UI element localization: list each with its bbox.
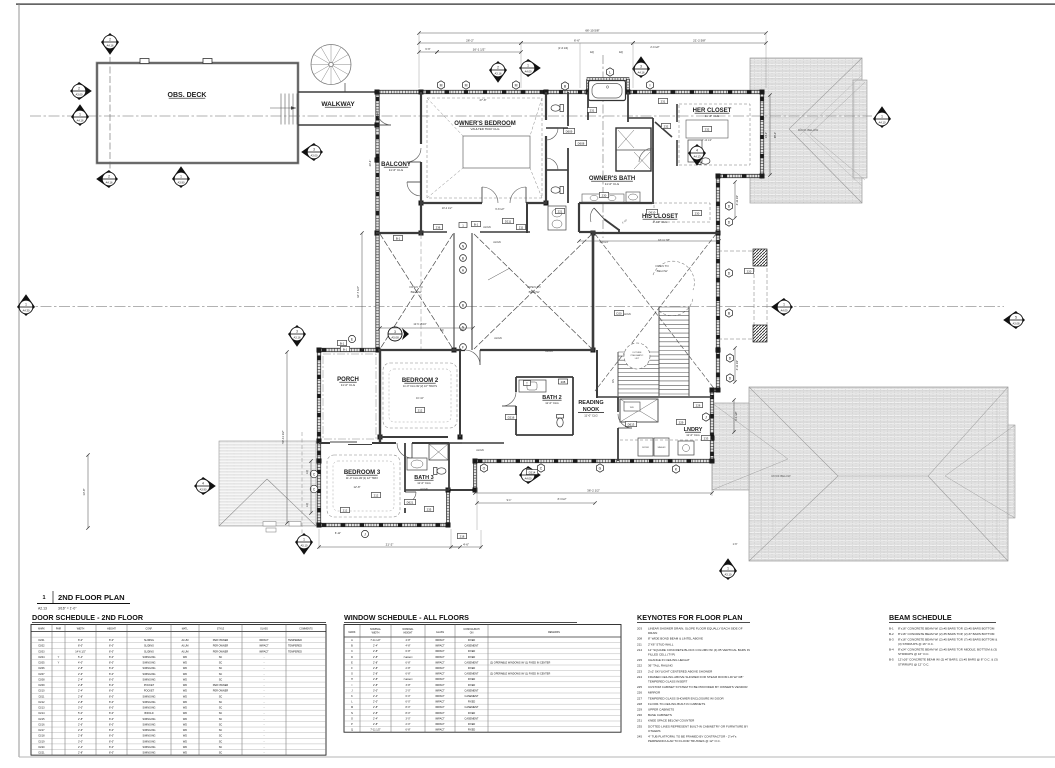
svg-text:235: 235	[427, 507, 432, 511]
door his closet	[594, 208, 604, 219]
svg-text:222: 222	[637, 664, 642, 668]
svg-text:M: M	[440, 83, 443, 87]
svg-text:WIDTH: WIDTH	[77, 628, 85, 630]
section marker right of deck 3/A3.00	[301, 143, 323, 161]
svg-text:(2) OPERABLE WINDOWS W/ (1) FI: (2) OPERABLE WINDOWS W/ (1) FIXED IN CEN…	[490, 661, 550, 664]
svg-text:5'-4": 5'-4"	[78, 656, 83, 659]
svg-text:3/16" = 1'-0": 3/16" = 1'-0"	[58, 607, 77, 611]
svg-text:KEYNOTES FOR FLOOR PLAN: KEYNOTES FOR FLOOR PLAN	[637, 613, 742, 622]
svg-text:11'-0" CLG: 11'-0" CLG	[705, 114, 720, 118]
laundry walls	[597, 350, 712, 461]
svg-text:8"x16" CONCRETE BEAM W/ (2) #5: 8"x16" CONCRETE BEAM W/ (2) #5 BARS TOP,…	[898, 638, 997, 642]
svg-text:2'-0": 2'-0"	[406, 689, 411, 692]
window tag hexagons top wall	[437, 81, 444, 89]
door laundry	[618, 427, 632, 429]
svg-text:2'-8": 2'-8"	[78, 667, 83, 670]
svg-text:SWINGING: SWINGING	[143, 718, 156, 721]
svg-text:A4.13: A4.13	[693, 154, 701, 158]
door schedule heading	[32, 613, 326, 623]
svg-text:IMPACT: IMPACT	[435, 729, 445, 732]
east wall of her-closet wing	[760, 91, 763, 177]
svg-text:11'-0" CLG: 11'-0" CLG	[417, 481, 430, 485]
svg-text:6'-11": 6'-11"	[335, 532, 341, 535]
svg-text:245: 245	[637, 735, 642, 739]
stairwell west wall	[592, 232, 595, 352]
svg-text:215: 215	[637, 658, 642, 662]
section marker left of deck 1/A4.16	[71, 104, 89, 126]
open to below 2 (x-brace)	[474, 234, 592, 349]
svg-text:BELOW: BELOW	[529, 290, 540, 294]
svg-text:B-1: B-1	[474, 222, 479, 226]
svg-text:3: 3	[394, 330, 396, 334]
svg-text:IMPACT: IMPACT	[435, 656, 445, 659]
svg-text:66'-10 5/8": 66'-10 5/8"	[585, 29, 599, 33]
svg-text:2: 2	[78, 86, 80, 90]
svg-text:1: 1	[783, 302, 785, 306]
svg-text:L: L	[609, 70, 611, 74]
window tag hexagons east wall	[725, 202, 732, 210]
svg-text:D215: D215	[39, 718, 46, 721]
svg-text:10'-2 1/2": 10'-2 1/2"	[442, 207, 453, 210]
svg-text:8"x24" CONCRETE BEAM W/ (2) #5: 8"x24" CONCRETE BEAM W/ (2) #5 BARS TOP,…	[898, 648, 997, 652]
svg-text:20'-4": 20'-4"	[368, 160, 372, 167]
svg-text:2'-4": 2'-4"	[78, 746, 83, 749]
svg-text:FIXED: FIXED	[468, 639, 476, 642]
section marker far right 5/A3.08	[1003, 311, 1025, 329]
svg-text:DOOR SCHEDULE - 2ND FLOOR: DOOR SCHEDULE - 2ND FLOOR	[32, 613, 144, 622]
dimension her closet right	[765, 93, 777, 176]
svg-text:2'-6": 2'-6"	[78, 723, 83, 726]
svg-text:2'-8": 2'-8"	[373, 650, 378, 653]
centerline horizontal middle (dash-dot)	[22, 306, 1004, 308]
roof below - lower left (porte-cochere hip roof)	[219, 432, 316, 542]
svg-text:IMPACT: IMPACT	[435, 673, 445, 676]
svg-text:WD: WD	[183, 740, 187, 743]
svg-text:8'-0": 8'-0"	[109, 662, 114, 665]
svg-text:8'-0": 8'-0"	[109, 639, 114, 642]
porch north wall	[318, 348, 380, 351]
section marker below bedroom3 1/A5.10	[295, 533, 313, 555]
porch ceiling dash-dot outline	[323, 354, 376, 439]
svg-text:233: 233	[704, 436, 709, 440]
svg-text:2'x2' SKYLIGHT CENTERED ABOVE: 2'x2' SKYLIGHT CENTERED ABOVE SHOWER	[648, 669, 713, 673]
svg-text:8'-0": 8'-0"	[109, 650, 114, 653]
dimension top row3	[417, 46, 659, 54]
svg-text:A3.08: A3.08	[1012, 321, 1020, 325]
stair lower run treads	[611, 352, 659, 396]
svg-text:A4.16: A4.16	[76, 118, 84, 122]
owner's bath south wall	[579, 176, 653, 232]
svg-text:MARK: MARK	[38, 627, 45, 630]
svg-text:M: M	[515, 83, 518, 87]
svg-text:218: 218	[460, 534, 465, 538]
svg-text:HEIGHT: HEIGHT	[403, 631, 413, 634]
svg-text:ALIGN: ALIGN	[476, 449, 484, 452]
section marker far left 1/A4.30	[17, 294, 35, 316]
dimension bridge vertical	[361, 233, 363, 350]
beam dashed line below balcony	[420, 234, 422, 349]
svg-text:FIXED: FIXED	[468, 723, 476, 726]
svg-text:D211: D211	[39, 695, 45, 698]
svg-text:12"x26" CONCRETE BEAM W/ (2) #: 12"x26" CONCRETE BEAM W/ (2) #7 BARS, (2…	[898, 658, 998, 662]
centerline vertical through owner's bath (dash-dot)	[602, 55, 604, 238]
svg-text:POCKET: POCKET	[144, 684, 155, 687]
svg-text:TEMPERED: TEMPERED	[288, 645, 302, 648]
svg-text:CONF.: CONF.	[146, 628, 153, 630]
svg-text:SWINGING: SWINGING	[143, 678, 156, 681]
svg-text:8'-0": 8'-0"	[109, 740, 114, 743]
svg-text:SC: SC	[219, 707, 223, 710]
svg-text:8'-0": 8'-0"	[109, 678, 114, 681]
svg-text:OTHERS: OTHERS	[648, 729, 661, 733]
svg-text:CASEMENT: CASEMENT	[465, 706, 479, 709]
svg-text:8'-0": 8'-0"	[109, 723, 114, 726]
house footprint fill	[319, 79, 762, 525]
open to below 1 (x-brace)	[380, 234, 453, 349]
svg-text:D201: D201	[39, 639, 46, 642]
svg-text:CASEMENT: CASEMENT	[465, 661, 479, 664]
svg-text:2'-8": 2'-8"	[373, 661, 378, 664]
porch south wall with sliding door	[319, 442, 381, 445]
svg-text:ALIGN: ALIGN	[623, 313, 631, 316]
door wc1	[546, 127, 558, 129]
svg-text:SC: SC	[219, 667, 223, 670]
owner's bedroom south wall with double door opening	[421, 203, 547, 233]
svg-text:A4.10: A4.10	[878, 120, 886, 124]
svg-text:SC: SC	[219, 729, 223, 732]
svg-text:4'-8": 4'-8"	[406, 645, 411, 648]
door balcony	[407, 161, 421, 163]
toilet wc1	[551, 105, 564, 112]
detail marker her closet 4/A4.13	[688, 144, 706, 166]
svg-text:B-1: B-1	[396, 236, 401, 240]
svg-text:CUSTOM CABINET SYSTEM TO BE PR: CUSTOM CABINET SYSTEM TO BE PROVIDED BY …	[648, 685, 748, 689]
svg-text:ALIGN: ALIGN	[494, 337, 502, 340]
svg-text:SWINGING: SWINGING	[143, 707, 156, 710]
svg-text:2: 2	[109, 37, 111, 41]
his closet cabinets (dashed)	[610, 203, 710, 236]
svg-text:STIRRUPS @ 16" O.C.: STIRRUPS @ 16" O.C.	[898, 652, 929, 656]
svg-text:G: G	[599, 466, 602, 470]
svg-text:B-5: B-5	[889, 658, 894, 662]
section marker above deck 2/A4.16	[101, 33, 119, 55]
section marker left of deck 2/A3.00	[70, 82, 92, 100]
svg-text:5: 5	[1015, 315, 1017, 319]
svg-text:8'-0": 8'-0"	[109, 690, 114, 693]
svg-text:CASEMENT: CASEMENT	[465, 673, 479, 676]
svg-text:230: 230	[695, 211, 700, 215]
door schedule table	[31, 625, 326, 756]
svg-text:E: E	[351, 337, 353, 341]
his closet angled wall	[604, 219, 628, 233]
svg-text:212: 212	[418, 408, 423, 412]
door wc2	[546, 169, 558, 171]
svg-text:IMPACT: IMPACT	[435, 639, 445, 642]
svg-text:IMPACT: IMPACT	[259, 645, 269, 648]
balcony east wall / bedroom west wall	[420, 92, 422, 235]
svg-text:WD: WD	[183, 695, 187, 698]
svg-text:2'-8": 2'-8"	[373, 723, 378, 726]
svg-text:SWINGING: SWINGING	[143, 656, 156, 659]
svg-text:A5.08: A5.08	[391, 336, 399, 340]
svg-text:BASE CABINETS: BASE CABINETS	[648, 713, 672, 717]
svg-text:WD: WD	[183, 718, 187, 721]
svg-text:2'-8": 2'-8"	[78, 684, 83, 687]
svg-text:VAULTED TRAY CLG: VAULTED TRAY CLG	[471, 127, 501, 131]
her closet west wall and vestibule	[628, 99, 677, 177]
section marker left porch 4/A3.90	[194, 477, 216, 495]
svg-text:SWINGING: SWINGING	[143, 746, 156, 749]
svg-text:WD: WD	[183, 701, 187, 704]
svg-text:J: J	[705, 415, 707, 419]
svg-text:3'-0": 3'-0"	[406, 717, 411, 720]
svg-text:D204: D204	[39, 656, 46, 659]
stair upper run treads	[659, 307, 689, 396]
sheet border bottom line	[19, 756, 1055, 758]
svg-text:11'-0" CLG: 11'-0" CLG	[545, 401, 558, 405]
centerline horizontal upper (dash-dot)	[30, 115, 872, 117]
dimension left vertical 13-8	[87, 455, 89, 528]
svg-text:BIFOLD: BIFOLD	[144, 712, 153, 715]
beam schedule list	[889, 627, 998, 667]
svg-text:B-1: B-1	[340, 341, 345, 345]
section marker south wall 3/A4.00	[519, 466, 541, 484]
svg-text:WD: WD	[183, 752, 187, 755]
svg-text:CASEMENT: CASEMENT	[465, 717, 479, 720]
svg-text:SWINGING: SWINGING	[143, 723, 156, 726]
svg-text:212: 212	[343, 508, 348, 512]
svg-text:CHANGE IN CEILING HEIGHT: CHANGE IN CEILING HEIGHT	[648, 658, 690, 662]
svg-text:STYLE: STYLE	[217, 628, 225, 630]
svg-text:W/D: W/D	[630, 407, 635, 409]
section marker below deck 2/A4.16	[96, 170, 118, 188]
svg-text:220: 220	[747, 269, 752, 273]
svg-text:A4.00: A4.00	[780, 308, 788, 312]
svg-text:36'-2 1/2": 36'-2 1/2"	[587, 489, 600, 493]
owner's bedroom tray ceiling (dashed)	[427, 98, 542, 198]
dimension align labels	[476, 226, 631, 452]
svg-text:SWINGING: SWINGING	[143, 673, 156, 676]
svg-text:O: O	[483, 466, 486, 470]
svg-text:8'-0": 8'-0"	[406, 712, 411, 715]
svg-text:IMPACT: IMPACT	[435, 667, 445, 670]
svg-text:D216: D216	[39, 723, 46, 726]
svg-text:3'-0": 3'-0"	[78, 740, 83, 743]
svg-text:SC: SC	[219, 752, 223, 755]
svg-text:SC: SC	[219, 718, 223, 721]
svg-text:FRAMED CEILING ABOVE SHOWER FO: FRAMED CEILING ABOVE SHOWER FOR STEAM RO…	[648, 675, 743, 679]
centerline vertical through deck (dashed)	[109, 38, 111, 186]
bridge rail tag circles	[460, 243, 467, 250]
svg-text:C: C	[351, 650, 353, 653]
svg-text:MARK: MARK	[349, 631, 356, 634]
svg-text:WD: WD	[183, 673, 187, 676]
svg-text:MIRROR: MIRROR	[648, 691, 661, 695]
svg-text:<varies>: <varies>	[403, 678, 413, 681]
svg-text:21'-2": 21'-2"	[386, 543, 394, 547]
svg-text:ROOF BELOW: ROOF BELOW	[798, 128, 819, 132]
svg-text:2'-8": 2'-8"	[78, 695, 83, 698]
svg-text:6'-0": 6'-0"	[406, 695, 411, 698]
svg-text:D211: D211	[505, 219, 512, 223]
svg-text:EQ: EQ	[590, 51, 594, 54]
svg-text:11'-0" CLG: 11'-0" CLG	[341, 383, 356, 387]
svg-text:B-3: B-3	[889, 638, 894, 642]
svg-text:228: 228	[637, 702, 642, 706]
owner's bath shower column	[616, 128, 651, 171]
svg-text:DRAIN: DRAIN	[648, 631, 657, 635]
svg-text:WD: WD	[183, 667, 187, 670]
svg-text:26'-2": 26'-2"	[466, 39, 474, 43]
svg-text:PAIR: PAIR	[56, 627, 62, 630]
svg-text:WD: WD	[183, 735, 187, 738]
svg-text:A2.13: A2.13	[38, 607, 47, 611]
svg-text:8'-0": 8'-0"	[109, 701, 114, 704]
terrace dashed edge lines	[718, 250, 767, 340]
svg-text:231: 231	[661, 99, 666, 103]
svg-text:A3.00: A3.00	[310, 153, 318, 157]
svg-text:GLASS: GLASS	[260, 627, 268, 630]
svg-text:COMMENTS: COMMENTS	[299, 628, 313, 630]
east exterior wall	[710, 176, 719, 461]
wall corner blocks	[317, 90, 765, 528]
svg-text:8'-0": 8'-0"	[109, 729, 114, 732]
svg-text:8'-0": 8'-0"	[109, 707, 114, 710]
door walkway to balcony	[377, 124, 391, 126]
svg-text:PERPENDICULAR TO FLOOR TRUSSES: PERPENDICULAR TO FLOOR TRUSSES @ 12" O.C…	[648, 739, 721, 743]
svg-text:SWINGING: SWINGING	[143, 735, 156, 738]
svg-text:4'-6": 4'-6"	[463, 543, 469, 547]
svg-text:ALIGN: ALIGN	[483, 226, 491, 229]
svg-text:IMPACT: IMPACT	[435, 684, 445, 687]
svg-text:6'-1 1/2": 6'-1 1/2"	[735, 411, 738, 420]
svg-text:221: 221	[558, 209, 563, 213]
bedroom2 south wall	[380, 437, 462, 443]
svg-text:REMARKS: REMARKS	[548, 631, 560, 634]
svg-text:WD: WD	[183, 690, 187, 693]
svg-text:211: 211	[519, 225, 524, 229]
section marker below deck 1/A3.90	[172, 166, 190, 188]
svg-text:D208: D208	[39, 678, 46, 681]
svg-text:D219: D219	[39, 740, 46, 743]
bedroom3 tray ceiling (dashed)	[327, 455, 400, 517]
svg-text:SC: SC	[219, 662, 223, 665]
svg-text:DOTTED LINES REPRESENT BUILT-I: DOTTED LINES REPRESENT BUILT-IN CABINETR…	[648, 724, 748, 728]
svg-text:18'-11 7/8": 18'-11 7/8"	[658, 239, 670, 242]
svg-text:PNEUMATIC: PNEUMATIC	[631, 354, 644, 357]
svg-text:SC: SC	[219, 695, 223, 698]
svg-text:1: 1	[527, 63, 529, 67]
svg-text:FIXED: FIXED	[468, 729, 476, 732]
svg-text:STIRRUPS @ 12" O.C.: STIRRUPS @ 12" O.C.	[898, 662, 929, 666]
svg-text:SC: SC	[219, 723, 223, 726]
spiral stair	[311, 45, 351, 93]
svg-text:G: G	[351, 673, 353, 676]
future pneumatic lift (dashed circle)	[624, 343, 650, 369]
svg-text:1: 1	[42, 595, 45, 601]
svg-text:4'-0": 4'-0"	[78, 662, 83, 665]
svg-text:SC: SC	[219, 673, 223, 676]
corridor south wall	[579, 231, 595, 233]
owner's bath vanities	[548, 140, 702, 230]
svg-text:11'-0" CLG: 11'-0" CLG	[686, 433, 699, 437]
svg-text:6'-8": 6'-8"	[406, 661, 411, 664]
svg-text:ALUM: ALUM	[182, 645, 189, 648]
svg-text:IMPACT: IMPACT	[435, 717, 445, 720]
svg-text:225: 225	[637, 685, 642, 689]
svg-text:FIXED: FIXED	[468, 684, 476, 687]
svg-text:ALUM: ALUM	[182, 650, 189, 653]
window schedule heading	[344, 613, 577, 623]
svg-text:LIFT: LIFT	[635, 358, 640, 360]
bedroom2/porch shared wall	[379, 350, 381, 444]
svg-text:HEIGHT: HEIGHT	[107, 628, 116, 630]
svg-text:FIXED: FIXED	[468, 712, 476, 715]
dimension east terrace verticals	[732, 180, 739, 433]
svg-text:2'-6": 2'-6"	[78, 729, 83, 732]
svg-text:8'-0": 8'-0"	[109, 645, 114, 648]
svg-text:D202: D202	[39, 645, 46, 648]
svg-text:WINDOW SCHEDULE - ALL FLOORS: WINDOW SCHEDULE - ALL FLOORS	[344, 613, 469, 622]
svg-text:IMPACT: IMPACT	[435, 723, 445, 726]
svg-text:236: 236	[436, 225, 441, 229]
her closet cabinets (dashed)	[679, 104, 750, 165]
svg-text:2'-8": 2'-8"	[373, 684, 378, 687]
dimension south bottom chain	[317, 464, 713, 549]
door bath3	[405, 491, 416, 493]
svg-text:6'-8 1/2": 6'-8 1/2"	[495, 208, 504, 211]
door bath2	[502, 405, 516, 407]
svg-text:ALIGN: ALIGN	[493, 241, 501, 244]
svg-text:227: 227	[637, 696, 642, 700]
svg-text:223: 223	[637, 669, 642, 673]
svg-text:8'-0": 8'-0"	[109, 684, 114, 687]
svg-text:D218: D218	[39, 735, 46, 738]
svg-text:D206: D206	[39, 667, 46, 670]
svg-text:12" SQUARE CONCRETE BLOCK COLU: 12" SQUARE CONCRETE BLOCK COLUMN W/ (4) …	[648, 648, 750, 652]
svg-text:2'-8": 2'-8"	[78, 718, 83, 721]
tag circle E near porch	[348, 335, 355, 342]
svg-text:(3) STIRRUPS @ 16" O.C.: (3) STIRRUPS @ 16" O.C.	[898, 642, 934, 646]
svg-text:4'-8 1/4": 4'-8 1/4"	[600, 241, 609, 244]
svg-text:4'-8": 4'-8"	[406, 639, 411, 642]
roof below - lower right (large hip roof with shingle hatch)	[712, 387, 1015, 561]
svg-text:PER OWNER: PER OWNER	[213, 684, 229, 687]
svg-text:4'-11 1/2": 4'-11 1/2"	[736, 195, 739, 205]
svg-text:IMPACT: IMPACT	[435, 689, 445, 692]
keynotes heading	[637, 613, 750, 623]
svg-text:GLASS: GLASS	[436, 631, 444, 634]
svg-text:N: N	[351, 712, 353, 715]
svg-text:CASEMENT: CASEMENT	[465, 645, 479, 648]
svg-text:OPEN TO: OPEN TO	[655, 264, 669, 268]
svg-text:SWINGING: SWINGING	[143, 729, 156, 732]
obs deck walls	[97, 59, 298, 164]
svg-text:4: 4	[696, 148, 698, 152]
svg-text:4" TUB PLATFORM, TO BE FRAMED: 4" TUB PLATFORM, TO BE FRAMED BY CONTRAC…	[648, 735, 737, 739]
svg-text:8"x16" CONCRETE BEAM W/ (2) #5: 8"x16" CONCRETE BEAM W/ (2) #5 BARS TOP,…	[898, 627, 995, 631]
bridge guard rails	[454, 233, 472, 350]
svg-text:8'-0": 8'-0"	[406, 706, 411, 709]
svg-text:A3.90: A3.90	[199, 487, 207, 491]
svg-text:1'-6": 1'-6"	[733, 543, 738, 546]
svg-text:KNEE SPACE BELOW COUNTER: KNEE SPACE BELOW COUNTER	[648, 719, 695, 723]
svg-text:(2) OPERABLE WINDOWS W/ (1) FI: (2) OPERABLE WINDOWS W/ (1) FIXED IN CEN…	[490, 673, 550, 676]
detail marker balcony corner 3/A5.08	[388, 327, 409, 341]
svg-text:IMPACT: IMPACT	[435, 678, 445, 681]
svg-text:36'-1": 36'-1"	[774, 132, 777, 138]
svg-text:D205: D205	[39, 662, 46, 665]
